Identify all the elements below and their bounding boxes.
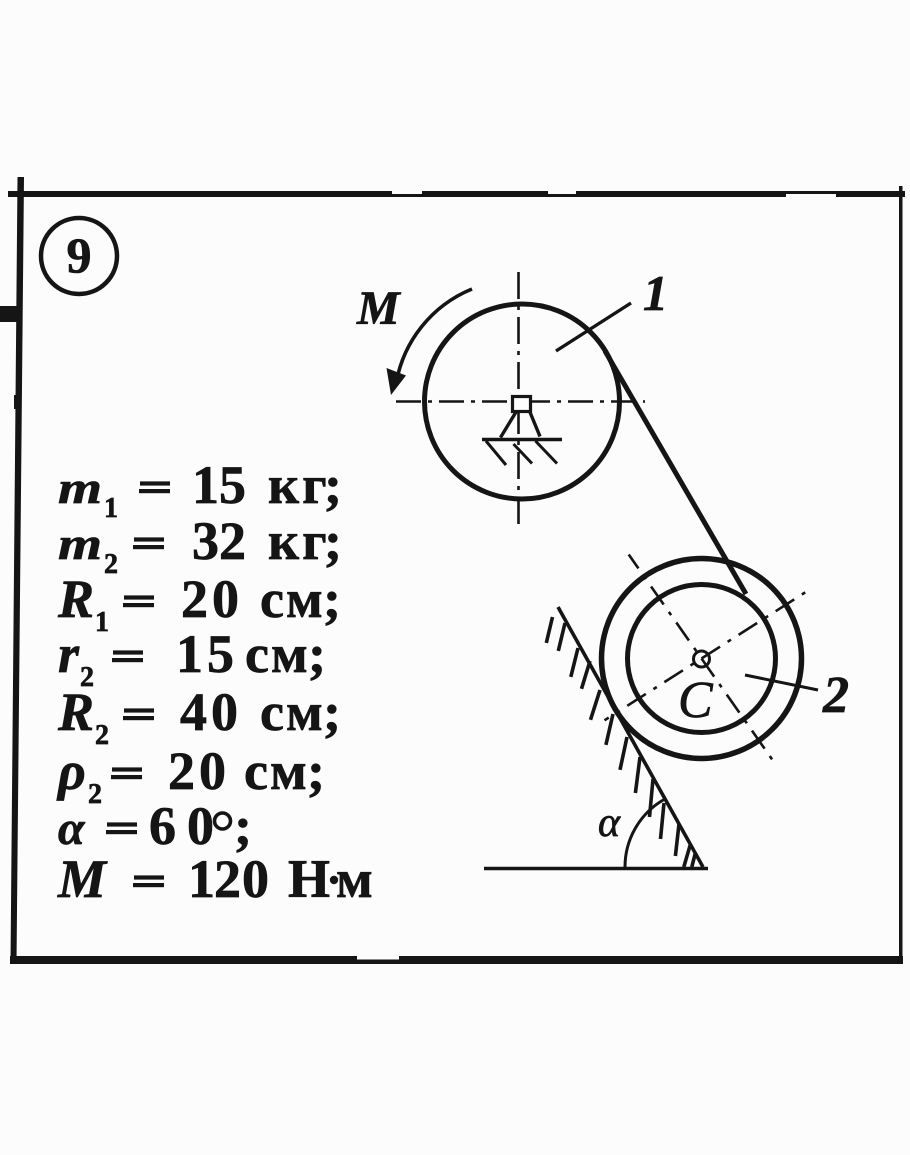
- svg-text:5: 5: [219, 455, 246, 515]
- svg-text:m: m: [58, 518, 102, 569]
- svg-text:1: 1: [176, 624, 203, 684]
- svg-text:2: 2: [168, 741, 195, 801]
- svg-text:2: 2: [104, 549, 118, 580]
- svg-text:;: ;: [308, 624, 326, 684]
- svg-text:1: 1: [188, 849, 215, 909]
- svg-text:m: m: [58, 462, 102, 513]
- svg-text:0: 0: [212, 569, 239, 629]
- svg-text:;: ;: [323, 569, 341, 629]
- svg-text:кг: кг: [268, 455, 330, 515]
- svg-text:2: 2: [181, 569, 208, 629]
- svg-text:0: 0: [187, 796, 214, 856]
- svg-text:;: ;: [324, 511, 342, 571]
- svg-text:2: 2: [219, 511, 246, 571]
- svg-text:α: α: [598, 800, 621, 846]
- svg-text:2: 2: [88, 779, 102, 810]
- svg-text:1: 1: [95, 607, 109, 638]
- svg-text:2: 2: [214, 849, 241, 909]
- svg-text:0: 0: [211, 682, 238, 742]
- svg-text:5: 5: [207, 624, 234, 684]
- svg-text:см: см: [245, 624, 310, 684]
- svg-text:r: r: [58, 624, 80, 684]
- svg-text:;: ;: [307, 741, 325, 801]
- svg-text:1: 1: [104, 493, 118, 524]
- svg-text:R: R: [57, 569, 94, 629]
- svg-text:0: 0: [242, 849, 269, 909]
- svg-text:ρ: ρ: [56, 741, 86, 801]
- svg-text:м: м: [336, 849, 373, 909]
- svg-text:R: R: [57, 682, 94, 742]
- svg-text:кг: кг: [268, 511, 330, 571]
- svg-text:6: 6: [149, 796, 176, 856]
- svg-text:см: см: [260, 682, 325, 742]
- svg-text:Н: Н: [288, 849, 330, 909]
- svg-text:0: 0: [199, 741, 226, 801]
- svg-text:;: ;: [324, 455, 342, 515]
- svg-text:M: M: [356, 282, 402, 335]
- svg-text:см: см: [244, 741, 309, 801]
- svg-text:4: 4: [180, 682, 207, 742]
- svg-text:см: см: [260, 569, 325, 629]
- svg-text:1: 1: [643, 265, 668, 321]
- svg-text:;: ;: [323, 682, 341, 742]
- svg-text:2: 2: [822, 667, 849, 724]
- svg-text:9: 9: [67, 227, 92, 283]
- svg-text:M: M: [57, 849, 108, 909]
- svg-text:α: α: [58, 802, 86, 855]
- svg-text:1: 1: [192, 455, 219, 515]
- svg-text:3: 3: [192, 511, 219, 571]
- svg-text:;: ;: [234, 796, 252, 856]
- svg-text:C: C: [678, 672, 714, 729]
- svg-text:2: 2: [95, 720, 109, 751]
